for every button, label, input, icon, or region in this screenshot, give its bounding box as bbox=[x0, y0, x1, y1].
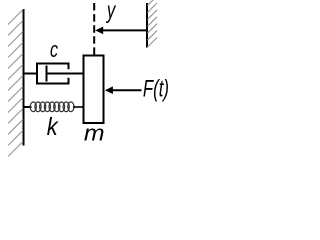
svg-text:c: c bbox=[50, 39, 58, 63]
spring k coils bbox=[30, 102, 74, 112]
mass m block bbox=[84, 56, 104, 124]
damper C cylinder bbox=[37, 64, 69, 84]
left wall hatching bbox=[8, 10, 23, 157]
damper piston bbox=[46, 66, 48, 82]
svg-text:F(t): F(t) bbox=[143, 75, 169, 102]
left wall bbox=[23, 9, 25, 146]
force arrowhead bbox=[105, 86, 113, 94]
y arrowhead bbox=[95, 27, 103, 35]
svg-text:y: y bbox=[105, 0, 117, 24]
spring end rod to mass bbox=[73, 106, 84, 108]
spring rod from wall bbox=[25, 106, 32, 108]
svg-text:m: m bbox=[84, 121, 105, 145]
force arrow shaft bbox=[111, 89, 142, 91]
damper rod from wall bbox=[25, 73, 37, 75]
y arrow shaft bbox=[101, 29, 147, 31]
dashed reference line bbox=[93, 3, 95, 55]
svg-text:k: k bbox=[47, 113, 59, 141]
top right wall bbox=[146, 3, 148, 48]
top right wall hatching bbox=[148, 0, 158, 47]
damper piston rod to mass bbox=[47, 73, 85, 75]
